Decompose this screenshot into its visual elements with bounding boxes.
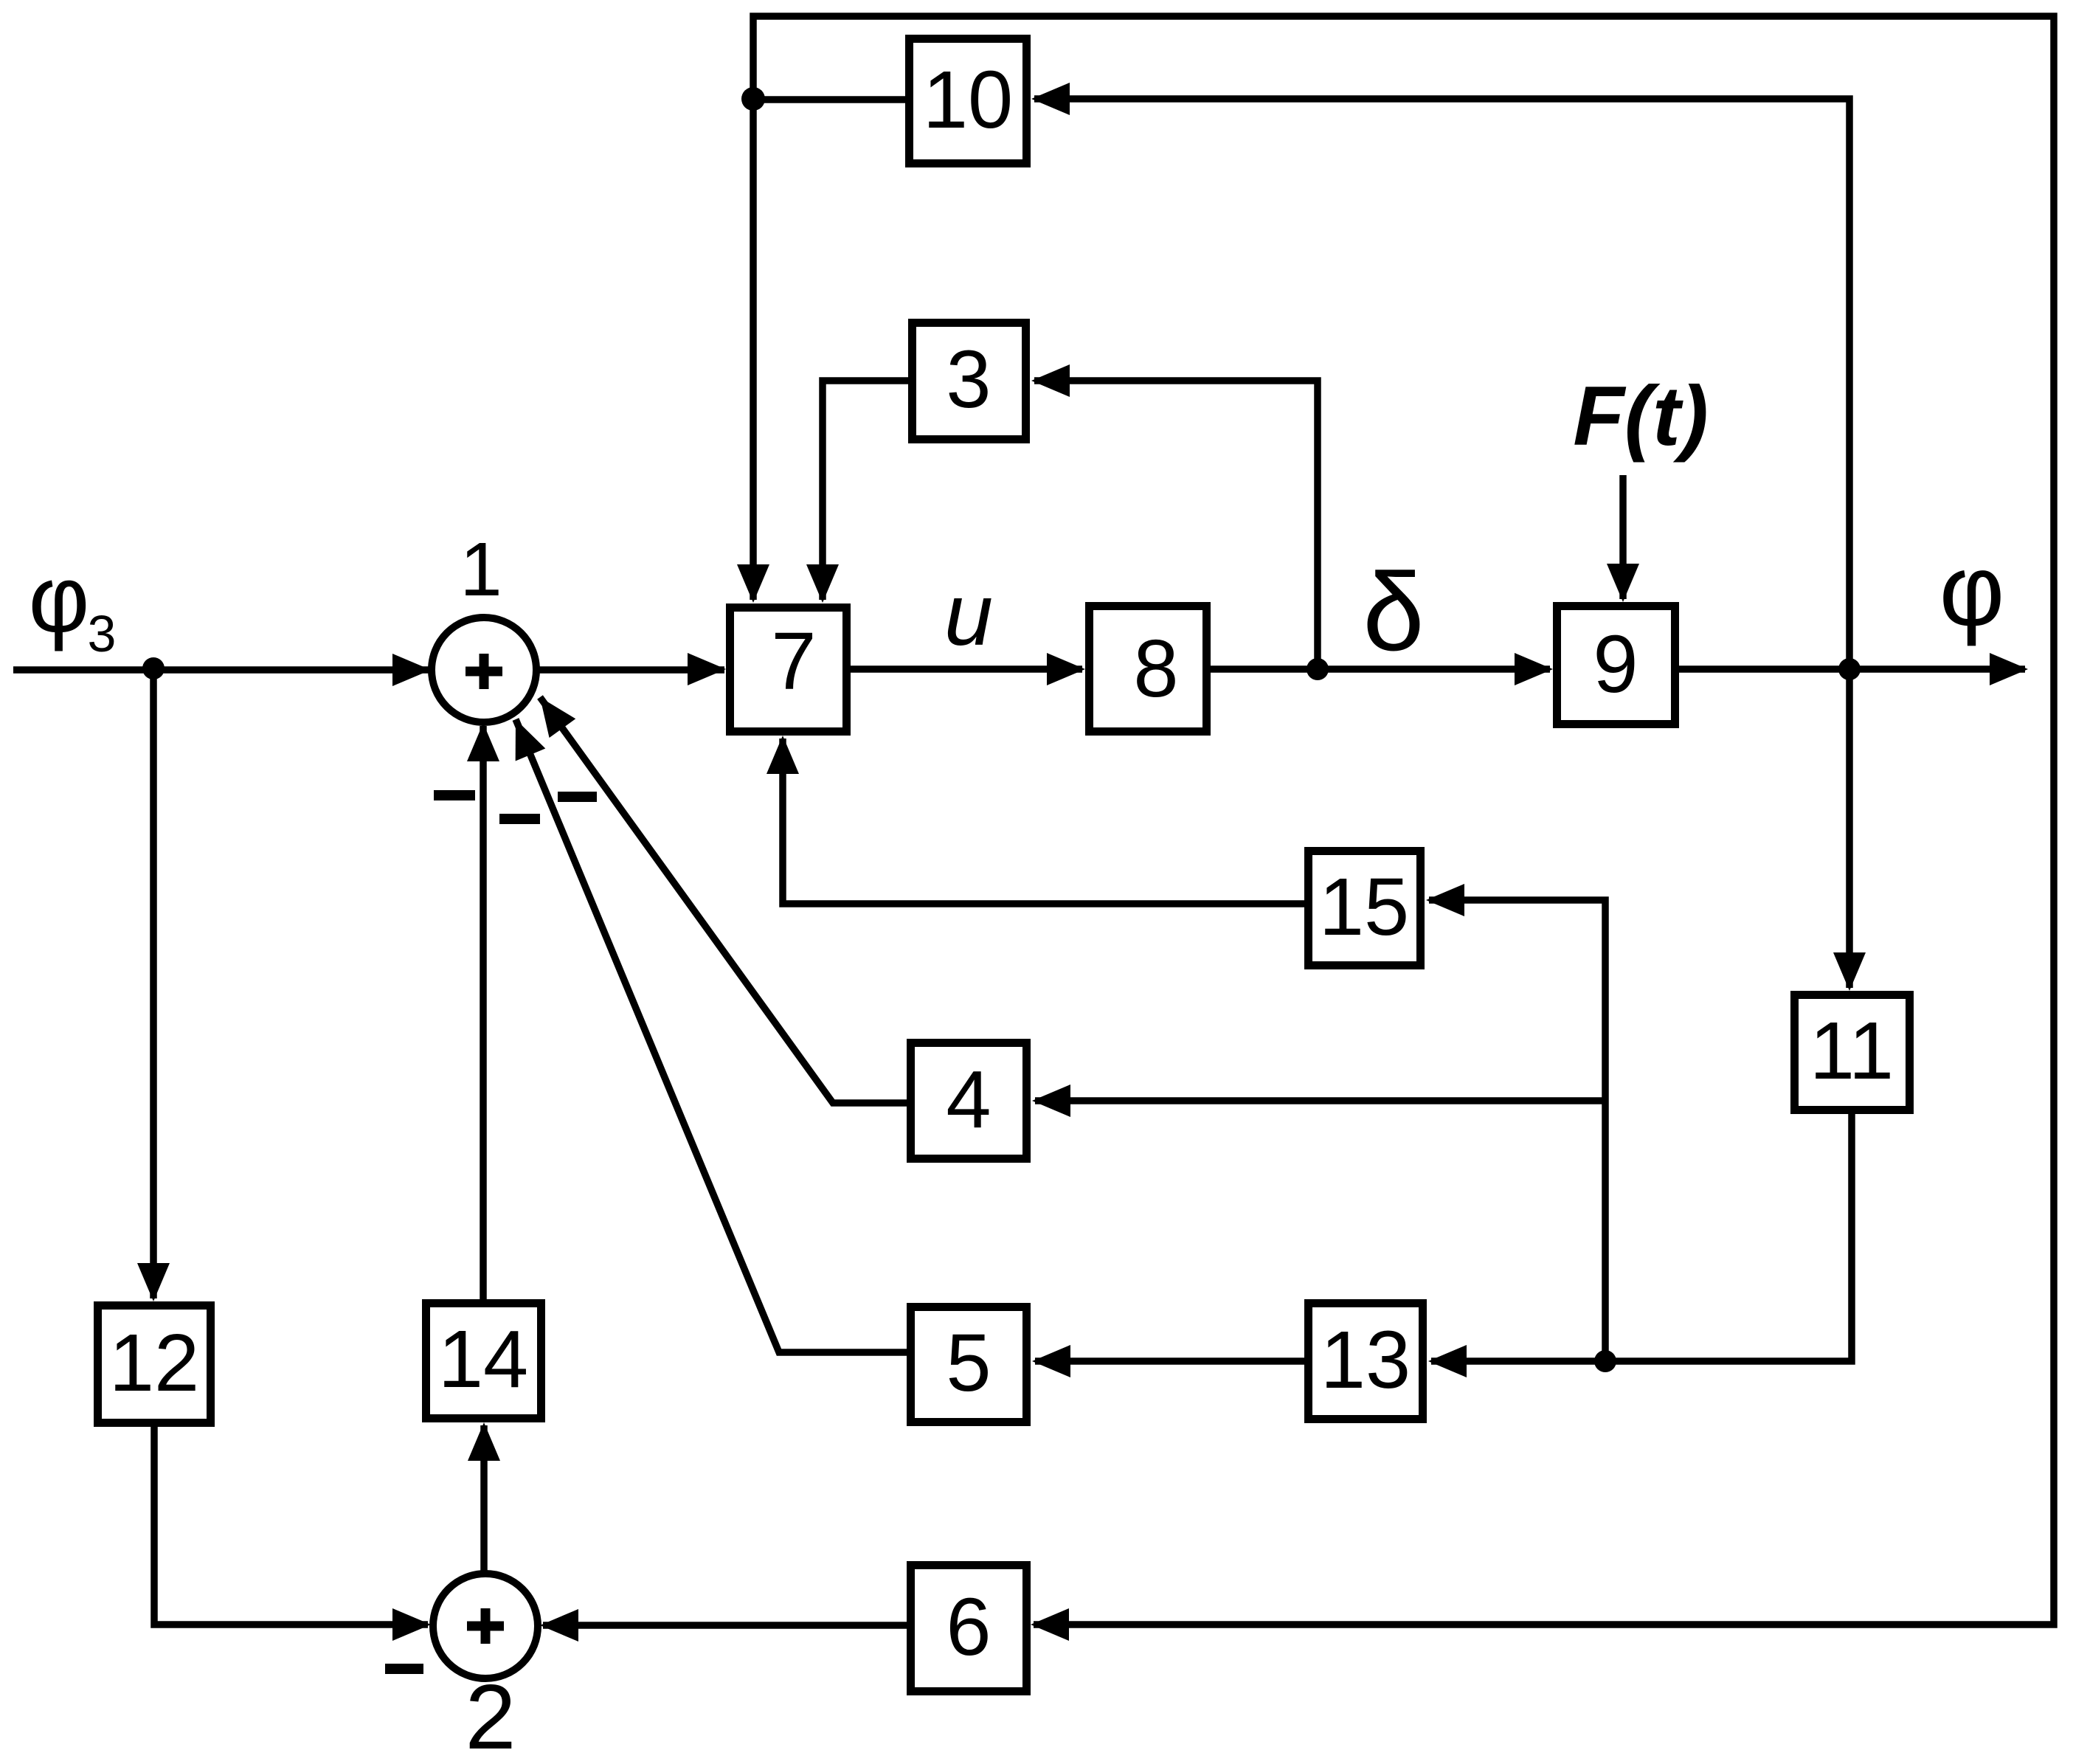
wire: block 9 output phi bbox=[1679, 665, 2025, 673]
wire: outer left vertical from top line down into block 7 top bbox=[753, 16, 2054, 1625]
wire: block 6 output into summer 2 right bbox=[543, 1622, 907, 1629]
wire arrowhead into block 15 right bbox=[1426, 884, 1464, 916]
svg-text:5: 5 bbox=[946, 1318, 991, 1408]
block 11 bbox=[1795, 995, 1910, 1110]
wire arrowhead into block 13 right bbox=[1428, 1345, 1467, 1377]
wire: block 10 output to node C bbox=[753, 96, 905, 103]
wire: block 11 down, left to block 13 bbox=[1431, 1114, 1852, 1361]
block 12 bbox=[98, 1306, 211, 1423]
wire arrowhead diag A into summer 1 bbox=[527, 688, 575, 738]
node A: branch on phi3 line bbox=[142, 657, 165, 679]
svg-text:15: 15 bbox=[1319, 862, 1409, 952]
wire: phi3 input line to summer 1 bbox=[13, 666, 429, 674]
wire: branch to block 4 input bbox=[1035, 1097, 1605, 1104]
svg-text:7: 7 bbox=[771, 616, 816, 707]
svg-text:13: 13 bbox=[1321, 1315, 1411, 1405]
wire arrowhead into summer 1 bottom bbox=[467, 723, 499, 761]
wire arrowhead into block 7 top from block 3 bbox=[806, 564, 839, 603]
wire: block 7 to block 8, label u bbox=[851, 665, 1082, 673]
svg-text:φ: φ bbox=[1939, 534, 2005, 647]
wire: block 15 output left and up into block 7 bottom bbox=[783, 739, 1304, 904]
block 14 bbox=[426, 1304, 541, 1419]
svg-text:u: u bbox=[944, 566, 993, 664]
block 10 bbox=[910, 39, 1027, 164]
block 3 bbox=[913, 323, 1026, 440]
wire: delta node up and left into block 3 bbox=[1034, 381, 1318, 669]
wire arrowhead into block 9 top bbox=[1607, 564, 1639, 602]
svg-text:3: 3 bbox=[88, 605, 117, 663]
wire: block 13 output into block 5 right bbox=[1035, 1357, 1304, 1365]
svg-text:3: 3 bbox=[946, 334, 991, 425]
block 7 bbox=[730, 608, 847, 732]
block 4 bbox=[911, 1043, 1027, 1159]
block 8 bbox=[1090, 606, 1207, 732]
svg-text:1: 1 bbox=[460, 527, 502, 612]
svg-text:9: 9 bbox=[1593, 619, 1638, 710]
summing junction 1 bbox=[432, 618, 536, 722]
wire arrowhead into block 6 right bbox=[1031, 1608, 1069, 1641]
svg-text:12: 12 bbox=[109, 1318, 199, 1408]
svg-text:6: 6 bbox=[946, 1582, 991, 1673]
wire: block 12 down and right to summer 2 bbox=[154, 1427, 428, 1625]
block 13 bbox=[1309, 1304, 1423, 1419]
node D on 11-13 line bbox=[1594, 1350, 1616, 1372]
wire: node A down to block 12 bbox=[150, 670, 157, 1298]
block 6 bbox=[911, 1566, 1027, 1692]
wire arrowhead into summer 2 right bbox=[540, 1609, 578, 1642]
wire arrowhead into block 14 bottom bbox=[468, 1422, 500, 1461]
wire: summer 2 up into block 14 bottom bbox=[480, 1425, 488, 1573]
wire: block 4 output diagonal to summer 1 bbox=[540, 697, 907, 1103]
wire arrowhead into block 11 top bbox=[1833, 952, 1866, 991]
wire arrowhead into block 5 right bbox=[1032, 1345, 1070, 1377]
wire: node D up to 15 input bbox=[1429, 900, 1605, 1361]
wire: F(t) arrow down into block 9 top bbox=[1619, 475, 1627, 599]
node B: phi branch bbox=[1838, 658, 1861, 680]
wire arrowhead into block 7 left bbox=[688, 653, 726, 685]
wire arrowhead into block 4 right bbox=[1032, 1085, 1070, 1117]
block 9 bbox=[1557, 606, 1675, 724]
wire: block 3 output down into block 7 top bbox=[823, 381, 908, 600]
wire arrowhead into summer 2 left bbox=[392, 1608, 431, 1641]
svg-text:4: 4 bbox=[946, 1054, 991, 1145]
svg-text:2: 2 bbox=[466, 1667, 516, 1764]
minus sign at summer 2 bbox=[385, 1664, 423, 1674]
node C: junction of block 10 output bbox=[741, 87, 765, 111]
svg-text:8: 8 bbox=[1133, 623, 1178, 714]
wire arrowhead diag B into summer 1 bbox=[501, 713, 546, 761]
svg-text:F(t): F(t) bbox=[1573, 370, 1709, 463]
wire arrowhead into block 9 left bbox=[1515, 653, 1553, 685]
svg-text:10: 10 bbox=[923, 55, 1013, 145]
wire arrowhead into block 12 top bbox=[137, 1263, 170, 1301]
wire: phi node up and left into block 10 bbox=[1034, 99, 1849, 988]
svg-text:11: 11 bbox=[1810, 1006, 1894, 1096]
svg-text:14: 14 bbox=[438, 1314, 528, 1405]
minus sign middle below summer 1 bbox=[499, 814, 540, 824]
node delta on line 8-9 bbox=[1307, 658, 1329, 680]
summing junction 2 bbox=[433, 1574, 538, 1678]
svg-text:φ: φ bbox=[29, 547, 90, 652]
minus sign right below summer 1 bbox=[558, 792, 597, 802]
wire: block 5 output diagonal to summer 1 bbox=[516, 719, 907, 1352]
wire arrowhead into block 7 bottom bbox=[766, 736, 799, 774]
wire arrowhead into block 7 top from node C bbox=[737, 564, 769, 603]
wire arrowhead into block 8 left bbox=[1047, 653, 1085, 685]
wire arrowhead phi output bbox=[1990, 653, 2028, 685]
wire arrowhead into block 3 right bbox=[1031, 364, 1070, 397]
block 15 bbox=[1309, 851, 1421, 966]
block 5 bbox=[911, 1307, 1027, 1422]
wire: block 14 up into summer 1 bottom bbox=[480, 726, 487, 1299]
svg-text:δ: δ bbox=[1363, 550, 1425, 674]
wire: summer 1 to block 7 bbox=[537, 666, 724, 674]
wire: block 8 to block 9 with delta node bbox=[1211, 665, 1550, 673]
wire arrowhead into block 10 right bbox=[1031, 83, 1070, 115]
wire arrowhead into summer 1 left bbox=[392, 654, 431, 686]
minus sign left of vertical arrow at summer 1 bbox=[434, 790, 475, 800]
